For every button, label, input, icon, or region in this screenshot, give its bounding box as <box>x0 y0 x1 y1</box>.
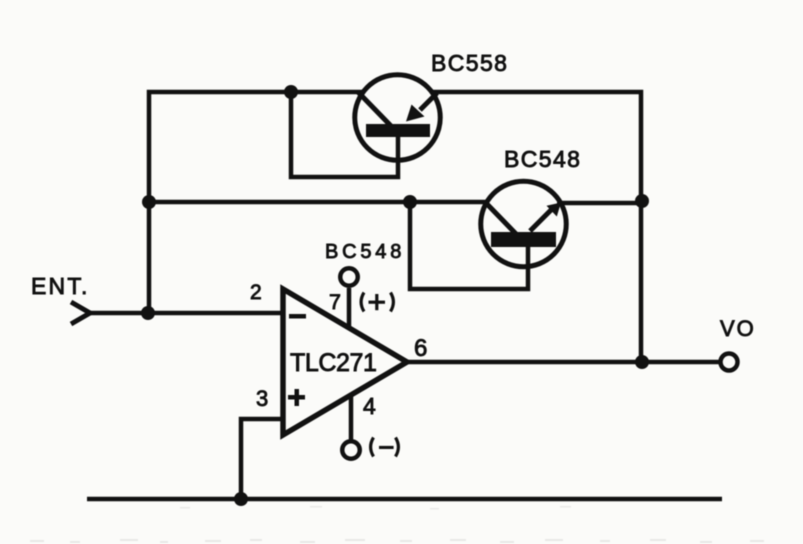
svg-text:BC558: BC558 <box>431 50 508 76</box>
svg-text:BC548: BC548 <box>504 146 581 172</box>
svg-text:VO: VO <box>720 316 756 341</box>
svg-text:7: 7 <box>329 290 341 314</box>
svg-text:2: 2 <box>250 281 262 304</box>
svg-text:6: 6 <box>414 335 427 362</box>
svg-text:ENT.: ENT. <box>31 273 90 299</box>
svg-text:3: 3 <box>256 386 268 411</box>
svg-text:BC548: BC548 <box>325 241 405 263</box>
svg-text:4: 4 <box>363 393 376 419</box>
svg-text:TLC271: TLC271 <box>290 349 377 377</box>
